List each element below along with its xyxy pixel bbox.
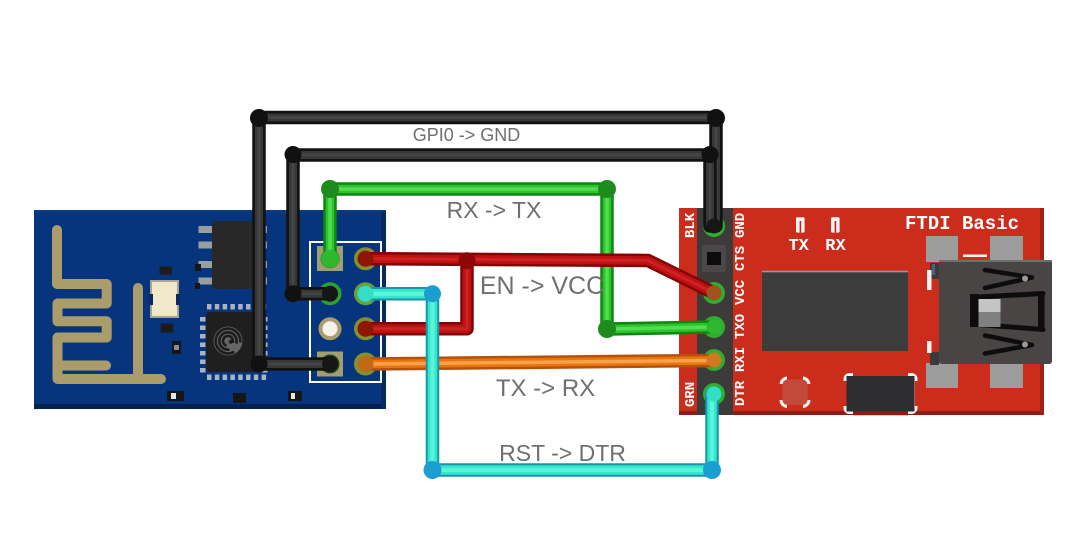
svg-text:CTS: CTS	[733, 246, 749, 271]
pin GPIO0 (ESP, left col row2)	[319, 282, 342, 305]
FTDI pin TXO	[703, 316, 725, 338]
pin TX (ESP, right col row4)	[354, 353, 377, 376]
FTDI pin DTR	[703, 383, 725, 405]
bottom component	[843, 372, 920, 415]
ESP8266 chip U3	[200, 304, 268, 380]
junction dots black wires	[250, 109, 725, 373]
pin GND (ESP, left col row4) square pad	[317, 352, 343, 377]
TX LED	[796, 217, 805, 232]
ESP logo swirl	[208, 321, 248, 361]
wire TX -> RX (orange)	[366, 361, 715, 365]
FTDI main IC	[762, 271, 908, 351]
RX LED	[831, 217, 840, 232]
svg-text:RXI: RXI	[733, 347, 749, 372]
reset pad (red square)	[779, 376, 811, 409]
pin RX (ESP, left col row1) square pad	[317, 246, 343, 271]
green junction dots	[321, 180, 616, 338]
wire GPIO0 -> GND (black wire 1)	[259, 118, 716, 365]
orange wire end caps	[358, 356, 374, 372]
USB pads	[926, 236, 1023, 388]
hole GPIO2 (ESP, left col row3)	[319, 317, 342, 340]
svg-text:GND: GND	[733, 213, 749, 238]
svg-text:TX: TX	[788, 237, 809, 256]
svg-text:DTR: DTR	[733, 380, 749, 406]
FTDI pin RXI	[703, 349, 725, 371]
pin header outline box on ESP	[310, 242, 381, 382]
crystal Y1	[149, 267, 180, 333]
USB mini-B connector	[927, 255, 1052, 366]
svg-text:FTDI Basic: FTDI Basic	[905, 213, 1019, 235]
pin RST (ESP, right col row2)	[354, 282, 377, 305]
svg-text:VCC: VCC	[733, 279, 749, 305]
cyan junction dots	[424, 285, 722, 479]
red junction dot	[459, 252, 476, 269]
svg-text:RST -> DTR: RST -> DTR	[499, 440, 626, 466]
small passive parts on ESP board	[167, 264, 302, 403]
ESP-01 module board	[34, 210, 386, 409]
FTDI pin GND	[703, 215, 725, 237]
svg-text:TX -> RX: TX -> RX	[496, 375, 595, 402]
flash chip U2	[199, 221, 268, 289]
wire EN -> VCC (red)	[366, 259, 715, 329]
pin EN (ESP, right col row1)	[354, 247, 377, 270]
antenna trace	[57, 230, 161, 379]
svg-text:RX -> TX: RX -> TX	[447, 197, 542, 223]
FTDI pin CTS (unpopulated square)	[702, 245, 726, 272]
FTDI pin VCC	[703, 282, 725, 304]
svg-text:TXO: TXO	[733, 314, 749, 339]
red wire end caps	[358, 251, 374, 267]
green wire end caps	[321, 250, 339, 268]
cyan wire end caps	[358, 286, 374, 302]
svg-text:RX: RX	[825, 237, 846, 256]
wire RX -> TX (green)	[330, 189, 714, 329]
svg-text:GPI0 -> GND: GPI0 -> GND	[413, 125, 521, 145]
black wire end caps	[707, 219, 722, 234]
wire RST -> DTR (cyan)	[366, 294, 713, 470]
FTDI Basic board	[679, 208, 1044, 415]
wire GND -> GND (black wire 2)	[293, 155, 710, 294]
FTDI header strip	[697, 208, 733, 415]
svg-text:EN -> VCC: EN -> VCC	[480, 272, 604, 300]
svg-text:GRN: GRN	[683, 382, 699, 407]
svg-text:BLK: BLK	[683, 212, 699, 238]
pin name labels GND CTS VCC TXO RXI DTR	[733, 213, 749, 406]
pin VCC (ESP, right col row3)	[354, 317, 377, 340]
